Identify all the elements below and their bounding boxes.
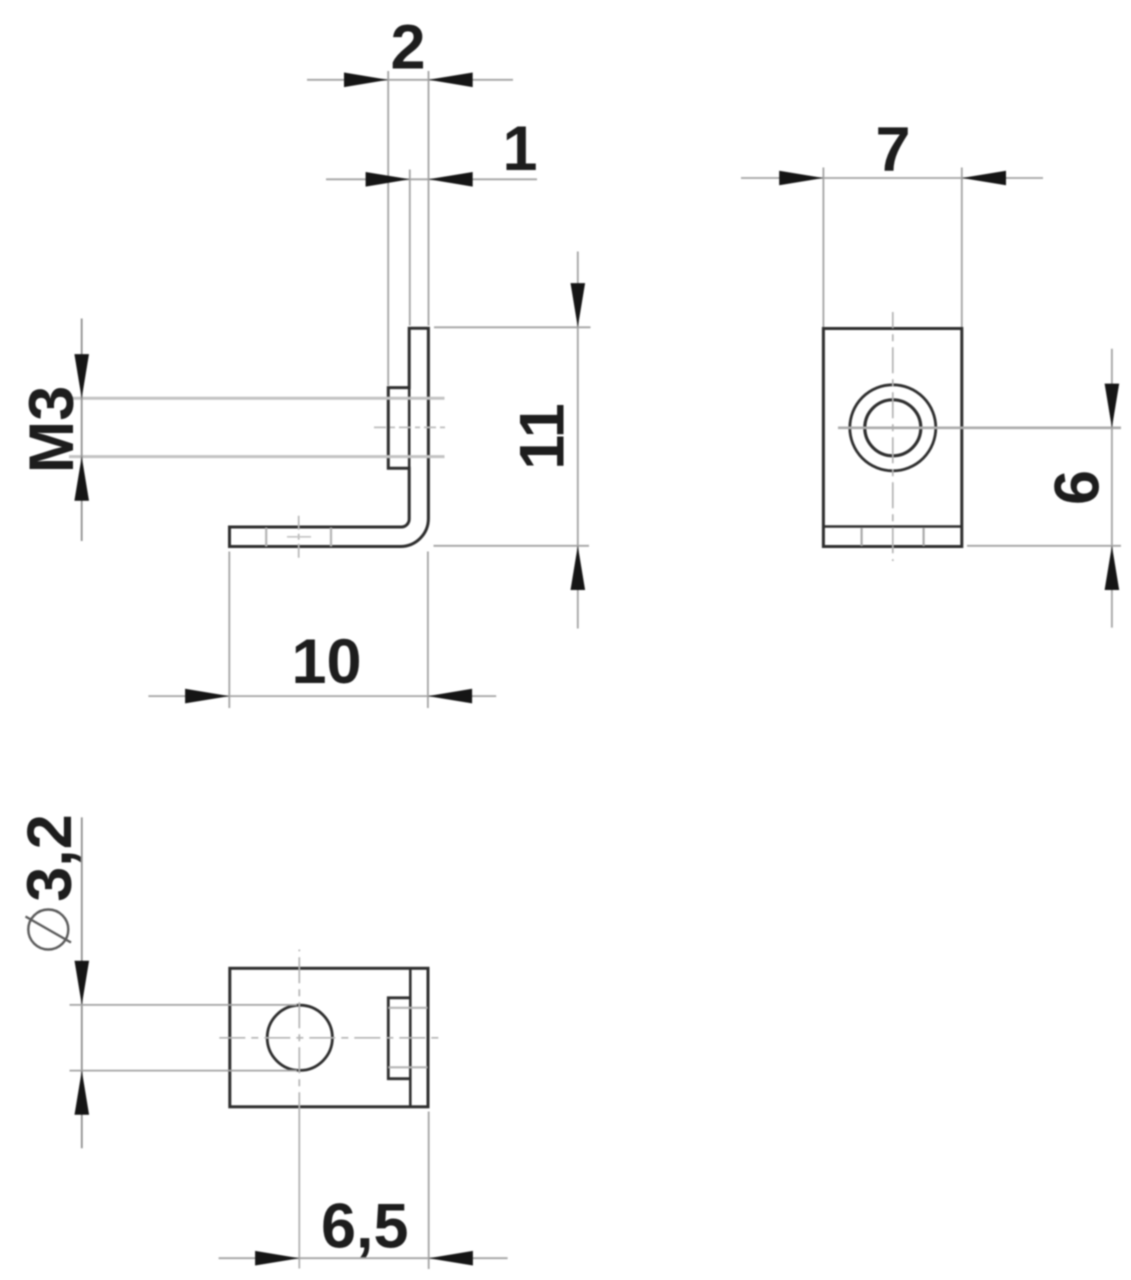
dimension 11: bottom arrow <box>571 546 586 590</box>
dimension 2: left extension line <box>387 71 389 386</box>
dimension 6,5: dim line <box>219 1257 508 1259</box>
front view: boss outer circle <box>850 385 936 471</box>
svg-text:M3: M3 <box>17 386 87 474</box>
dimension 6: dim line <box>1111 349 1113 628</box>
dimension 10: dim line <box>148 695 496 697</box>
top view: M3 hidden thread line lower <box>388 1066 427 1068</box>
dimension 6: bottom extension line <box>967 545 1121 547</box>
svg-text:6,5: 6,5 <box>321 1192 409 1262</box>
dimension 6,5: left arrow <box>255 1251 299 1266</box>
side view: hidden hole edge left <box>265 528 267 547</box>
top view: bend tangent line <box>409 968 412 1107</box>
dimension 7: dim line <box>741 177 1043 179</box>
dimension 11: dim line <box>577 252 579 629</box>
front view: vertical centerline <box>892 312 894 561</box>
dimension 10: left extension line <box>228 552 230 709</box>
dimension 1: extension line <box>409 170 411 326</box>
front view: M3 hole circle <box>865 400 921 456</box>
front view: bend tangent line <box>823 525 961 528</box>
side view: hidden hole edge right <box>330 528 332 547</box>
dimension 10: left arrow <box>185 689 229 704</box>
top view: M3 hidden thread line upper <box>388 1007 427 1009</box>
dimension 11: top arrow <box>571 283 586 327</box>
side view: hole horizontal center dash <box>287 536 311 538</box>
dimension 11: top extension line <box>434 326 591 328</box>
svg-text:7: 7 <box>875 115 910 185</box>
dimension 2: dim line <box>307 79 513 81</box>
top view: boss outline <box>388 998 410 1079</box>
dimension 6: bottom arrow <box>1105 546 1120 590</box>
dimension 11: bottom extension line <box>434 545 590 547</box>
svg-text:1: 1 <box>502 114 537 184</box>
top view: vertical centerline <box>298 950 300 1111</box>
top view: plate outline <box>230 968 428 1107</box>
svg-text:2: 2 <box>390 13 425 83</box>
dimension M3: dim line <box>81 319 83 542</box>
dimension 7: right extension line <box>961 168 963 328</box>
front view: hidden hole edge right <box>922 528 924 547</box>
dimension dia 3,2: upper arrow <box>75 961 90 1005</box>
front view: plate outline <box>823 329 961 547</box>
dimension 7: left extension line <box>822 168 824 328</box>
dimension 2: right arrow <box>429 73 473 88</box>
dimension 6,5: right arrow <box>429 1251 473 1266</box>
dimension dia 3,2: diameter symbol circle <box>28 910 68 950</box>
svg-text:10: 10 <box>291 627 361 697</box>
side view: M3 thread lower line / extension <box>69 455 445 458</box>
side view: hole vertical centerline <box>298 513 300 559</box>
dimension 1: left arrow <box>366 172 410 187</box>
dimension dia 3,2: top extension line <box>70 1004 298 1006</box>
top view: hole circle d3.2 <box>267 1005 332 1070</box>
dimension dia 3,2: bottom extension line <box>70 1070 298 1072</box>
dimension dia 3,2: lower arrow <box>75 1071 90 1115</box>
dimension 10: right arrow <box>428 689 472 704</box>
front view: horizontal centerline / 6 top extension <box>838 426 1121 429</box>
dimension M3: lower arrow <box>74 457 89 501</box>
side view: thread horizontal centerline <box>374 426 447 428</box>
dimension 7: right arrow <box>962 171 1006 186</box>
dimension 1: dim line <box>326 178 537 180</box>
top view: horizontal centerline <box>214 1037 442 1039</box>
top view: hole center extension to 6,5 dim <box>298 1110 300 1269</box>
svg-text:11: 11 <box>508 403 578 470</box>
dimension 1: right arrow <box>429 172 473 187</box>
dimension 7: left arrow <box>779 171 823 186</box>
dimension dia 3,2: dim line <box>81 817 83 1148</box>
dimension 2: right extension line <box>428 71 430 326</box>
dimension dia 3,2: diameter symbol slash <box>26 917 72 943</box>
dimension 2: left arrow <box>344 73 388 88</box>
svg-text:6: 6 <box>1043 470 1113 505</box>
side view: M3 thread upper line / extension <box>69 397 445 400</box>
dimension M3: upper arrow <box>74 354 89 398</box>
dimension 6,5: right extension line <box>428 1112 430 1270</box>
side view: leg inner edge across boss <box>408 388 411 469</box>
front view: hidden hole edge left <box>860 528 862 547</box>
side view: L-bracket outline <box>230 328 429 546</box>
svg-text:3,2: 3,2 <box>15 814 85 902</box>
dimension 6: top arrow <box>1105 384 1120 428</box>
dimension 10: right extension line <box>427 552 429 709</box>
